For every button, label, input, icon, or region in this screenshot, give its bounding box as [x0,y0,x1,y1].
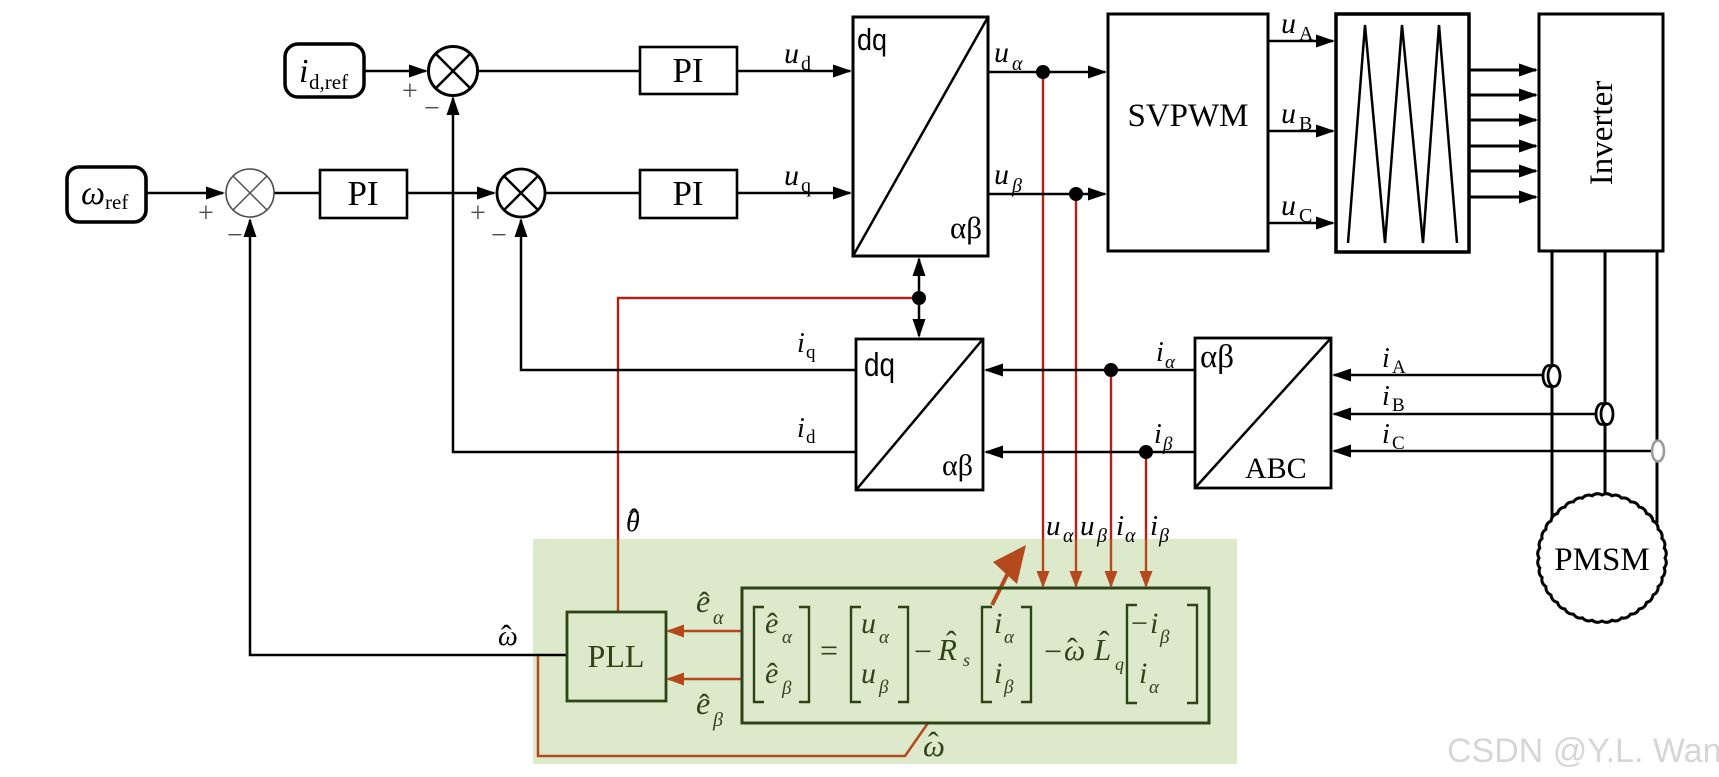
svg-text:β: β [1011,175,1022,197]
svg-text:PMSM: PMSM [1554,542,1649,578]
svg-text:i: i [1150,510,1158,542]
svg-text:C: C [1392,433,1405,454]
svg-text:ˆ: ˆ [767,606,778,642]
svg-text:i: i [1382,343,1390,374]
svg-text:ˆ: ˆ [946,624,957,660]
svg-text:B: B [1392,395,1405,416]
svg-text:u: u [1281,189,1296,222]
svg-text:β: β [712,709,723,731]
svg-text:ˆ: ˆ [1067,631,1078,667]
svg-text:ˆ: ˆ [629,503,639,536]
svg-text:αβ: αβ [1200,339,1234,375]
svg-text:i: i [1154,419,1162,450]
svg-text:u: u [1281,97,1296,130]
svg-text:SVPWM: SVPWM [1127,98,1248,134]
svg-text:PI: PI [347,174,378,213]
svg-text:i: i [994,657,1002,690]
svg-text:d: d [801,53,811,75]
svg-text:α: α [1063,525,1074,547]
svg-text:−: − [1131,607,1148,640]
svg-text:q: q [801,175,811,197]
svg-text:−: − [424,93,440,124]
svg-text:u: u [1046,510,1061,542]
svg-text:u: u [1080,510,1095,542]
svg-text:α: α [1004,627,1015,648]
svg-text:ˆ: ˆ [699,687,710,723]
svg-text:β: β [1096,525,1107,547]
svg-text:u: u [994,36,1009,69]
svg-text:dq: dq [857,22,887,57]
svg-text:β: β [1003,677,1014,698]
svg-text:PI: PI [672,174,703,213]
svg-text:αβ: αβ [942,449,973,482]
svg-text:Inverter: Inverter [1584,81,1620,185]
svg-text:i: i [797,413,805,444]
svg-text:β: β [781,678,792,699]
svg-text:β: β [878,677,889,698]
svg-text:PLL: PLL [588,638,645,674]
svg-text:α: α [1125,525,1136,547]
svg-text:α: α [1012,53,1023,75]
svg-text:=: = [820,632,838,668]
svg-text:ˆ: ˆ [767,656,778,692]
svg-text:i: i [1116,510,1124,542]
svg-text:i: i [1139,657,1147,690]
svg-text:PI: PI [672,51,703,90]
svg-text:A: A [1299,23,1314,45]
svg-text:d: d [806,427,816,448]
svg-text:ˆ: ˆ [699,585,710,621]
svg-text:u: u [861,607,876,640]
svg-text:−: − [491,220,507,251]
svg-text:i: i [1382,381,1390,412]
svg-text:u: u [994,158,1009,191]
svg-text:ˆ: ˆ [501,618,512,654]
svg-text:B: B [1299,113,1312,135]
svg-text:q: q [1115,654,1124,674]
svg-text:−: − [1044,633,1062,669]
svg-text:+: + [470,198,486,229]
svg-text:β: β [1162,434,1173,455]
svg-text:i: i [994,607,1002,640]
svg-text:q: q [806,342,816,363]
svg-text:i: i [299,53,308,90]
svg-text:β: β [1159,627,1170,648]
svg-text:i: i [797,328,805,359]
svg-text:ˆ: ˆ [1099,624,1110,660]
svg-text:u: u [861,657,876,690]
svg-text:−: − [914,633,932,669]
svg-text:ref: ref [105,190,128,214]
svg-text:u: u [1281,7,1296,40]
svg-text:dq: dq [864,346,895,383]
svg-text:αβ: αβ [950,210,982,245]
svg-text:u: u [784,37,799,70]
svg-text:ˆ: ˆ [928,725,939,761]
svg-text:A: A [1392,357,1406,378]
svg-text:ω: ω [81,175,105,212]
svg-text:i: i [1156,337,1164,368]
svg-text:β: β [1158,525,1169,547]
svg-text:+: + [198,198,214,229]
svg-text:α: α [1149,677,1160,698]
svg-text:+: + [402,76,418,107]
svg-text:α: α [713,607,724,629]
svg-text:s: s [963,650,970,670]
svg-text:u: u [784,159,799,192]
svg-text:i: i [1150,607,1158,640]
svg-text:d,ref: d,ref [309,70,348,94]
svg-text:α: α [782,627,793,648]
svg-text:α: α [1165,352,1176,373]
svg-text:ABC: ABC [1245,452,1307,485]
svg-text:−: − [227,220,243,251]
svg-text:C: C [1299,205,1312,227]
svg-text:i: i [1382,419,1390,450]
svg-text:α: α [879,627,890,648]
svg-text:CSDN @Y.L. Wang: CSDN @Y.L. Wang [1447,732,1719,770]
